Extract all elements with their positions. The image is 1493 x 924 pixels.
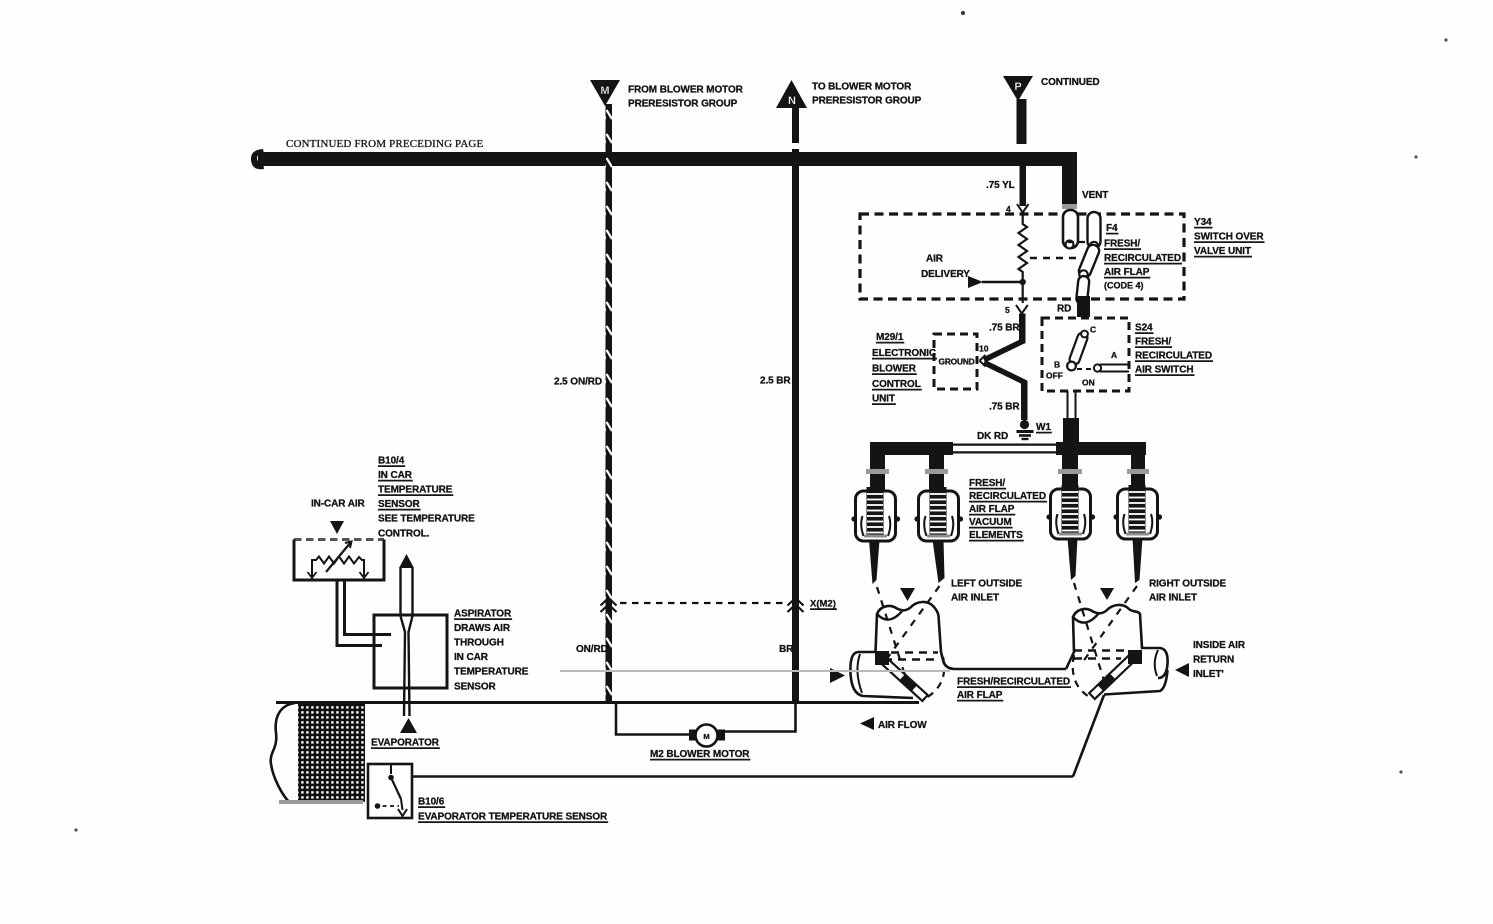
svg-text:RECIRCULATED: RECIRCULATED — [1104, 253, 1181, 264]
svg-text:THROUGH: THROUGH — [454, 638, 504, 649]
svg-text:EVAPORATOR: EVAPORATOR — [371, 738, 440, 749]
box: ground terminal of M29/1 (dashed) — [934, 334, 977, 389]
svg-text:CONTROL: CONTROL — [872, 379, 921, 390]
label: evaporator — [371, 738, 440, 749]
dashed alignment lines inside Y34 — [1030, 242, 1086, 258]
svg-text:B: B — [1054, 360, 1060, 370]
connector X(M2): separation point on both blower wires — [601, 598, 836, 612]
svg-text:INLET': INLET' — [1193, 669, 1224, 680]
svg-text:AIR SWITCH: AIR SWITCH — [1135, 365, 1193, 376]
motor M2 blower motor — [616, 703, 796, 747]
flap: right fresh/recirculated air flap — [1089, 650, 1142, 699]
label: from blower motor preresistor group — [628, 85, 744, 110]
ground W1 — [1017, 420, 1052, 439]
label: wire gauge 2.5 BR — [760, 376, 791, 387]
svg-text:P: P — [1014, 81, 1021, 93]
svg-text:ELEMENTS: ELEMENTS — [969, 530, 1023, 541]
svg-text:N: N — [788, 95, 796, 107]
connector M (from blower motor preresistor group) — [590, 80, 620, 106]
flap: left fresh/recirculated air flap — [875, 651, 928, 701]
label: ON/RD and BR near blower — [576, 644, 608, 655]
svg-text:FRESH/RECIRCULATED: FRESH/RECIRCULATED — [957, 677, 1070, 688]
svg-text:RETURN: RETURN — [1193, 655, 1234, 666]
label: fresh/recirculated air flap vacuum elements — [969, 478, 1046, 541]
vacuum valve: middle tilted capsule — [1077, 243, 1101, 279]
svg-text:CONTROL.: CONTROL. — [378, 529, 430, 540]
svg-text:M: M — [600, 85, 609, 97]
vacuum valve: lower capsule to RD port — [1076, 275, 1090, 304]
wire: vacuum manifold bus — [866, 442, 1149, 491]
linkage: dashed rods from elements 3-4 to right flap — [1074, 583, 1137, 687]
svg-text:2.5 ON/RD: 2.5 ON/RD — [554, 377, 602, 388]
svg-text:10: 10 — [979, 344, 989, 354]
svg-text:OFF: OFF — [1046, 371, 1063, 381]
svg-text:AIR: AIR — [926, 254, 944, 265]
svg-text:AIR INLET: AIR INLET — [951, 593, 999, 604]
arrow: left outside air inlet flow — [900, 588, 915, 601]
svg-text:IN-CAR AIR: IN-CAR AIR — [311, 499, 366, 510]
svg-text:BR: BR — [779, 644, 794, 655]
linkage: dashed rods from elements 1-2 to left flap — [877, 586, 940, 688]
wire: sensor leads to aspirator — [337, 581, 391, 646]
evaporator core (cross-hatched) — [279, 704, 365, 804]
label: S24 fresh/recirculated air switch — [1135, 323, 1212, 376]
svg-text:2.5 BR: 2.5 BR — [760, 376, 791, 387]
svg-text:B10/4: B10/4 — [378, 456, 405, 467]
label + wiper arrow: air delivery — [921, 254, 1020, 289]
arrow: right outside air inlet flow — [1100, 588, 1114, 600]
svg-text:SENSOR: SENSOR — [454, 682, 497, 693]
svg-text:.75 BR: .75 BR — [989, 402, 1020, 413]
svg-text:FRESH/: FRESH/ — [969, 478, 1005, 489]
svg-text:INSIDE AIR: INSIDE AIR — [1193, 640, 1246, 651]
label: right outside air inlet — [1149, 579, 1226, 604]
svg-text:A: A — [1111, 350, 1117, 360]
svg-text:VACUUM: VACUUM — [969, 517, 1012, 528]
svg-text:FRESH/: FRESH/ — [1104, 239, 1140, 250]
sensor B10/6 box — [368, 764, 412, 818]
svg-text:SENSOR: SENSOR — [378, 499, 421, 510]
aspirator box — [374, 615, 447, 688]
label: continued from preceding page — [286, 138, 484, 150]
wire: main thick feed bus from preceding page — [251, 149, 1077, 209]
pin 4 of Y34 — [1006, 204, 1029, 214]
svg-text:AIR FLAP: AIR FLAP — [957, 690, 1003, 701]
label: fresh/recirculated air flap — [957, 677, 1070, 702]
svg-text:FROM BLOWER MOTOR: FROM BLOWER MOTOR — [628, 85, 744, 96]
svg-text:BLOWER: BLOWER — [872, 364, 917, 375]
svg-text:PRERESISTOR GROUP: PRERESISTOR GROUP — [812, 96, 922, 107]
box: S24 fresh/recirculated air switch (dashed) — [1042, 318, 1129, 391]
svg-text:VENT: VENT — [1082, 190, 1108, 201]
svg-text:B10/6: B10/6 — [418, 797, 445, 808]
vacuum element 3 (right inner) — [1046, 485, 1095, 580]
svg-text:TEMPERATURE: TEMPERATURE — [454, 667, 529, 678]
svg-text:RIGHT OUTSIDE: RIGHT OUTSIDE — [1149, 579, 1226, 590]
wire: 2.5 BR wire from connector N down to blower motor — [792, 106, 799, 703]
svg-text:EVAPORATOR TEMPERATURE SENSOR: EVAPORATOR TEMPERATURE SENSOR — [418, 812, 608, 823]
svg-text:RECIRCULATED: RECIRCULATED — [969, 491, 1046, 502]
label: DK RD hose — [977, 431, 1008, 442]
wire: 2.5 ON/RD striped wire from connector M down to blower circuit — [606, 104, 613, 703]
label: continued — [1041, 77, 1100, 88]
sensor B10/4 box — [294, 540, 384, 581]
scan artifact: faint grey line — [560, 670, 950, 672]
svg-text:IN CAR: IN CAR — [378, 470, 413, 481]
label: inside air return inlet — [1193, 640, 1246, 680]
label: M29/1 electronic blower control unit — [872, 332, 936, 405]
arrow: in-car air into sensor — [330, 521, 344, 534]
svg-text:Y34: Y34 — [1194, 217, 1212, 228]
wire: fork from pin 10 up to pin 5 wire — [984, 341, 1023, 360]
svg-text:ELECTRONIC: ELECTRONIC — [872, 348, 936, 359]
connector N (to blower motor preresistor group) — [776, 80, 807, 108]
duct: left outside air inlet duct — [850, 602, 1066, 698]
svg-text:IN CAR: IN CAR — [454, 652, 489, 663]
svg-text:DELIVERY: DELIVERY — [921, 269, 970, 280]
svg-text:AIR FLAP: AIR FLAP — [1104, 267, 1150, 278]
wire: fork from pin 10 down to ground W1 (.75 BR) — [984, 363, 1028, 421]
arrow: into left duct — [830, 668, 845, 683]
svg-text:F4: F4 — [1106, 223, 1118, 234]
vacuum valve: upper arm capsule — [1088, 212, 1101, 250]
svg-text:RD: RD — [1057, 304, 1071, 315]
wire: vacuum hose from S24 pivot down to manifold — [1063, 391, 1079, 444]
label: VENT port — [1082, 190, 1108, 201]
svg-text:FRESH/: FRESH/ — [1135, 337, 1171, 348]
housing: torn-edge break at left — [271, 703, 295, 803]
connector P (continued) — [1003, 76, 1033, 101]
arrow: inside air return inlet — [1175, 663, 1189, 677]
aspirator venturi channel with arrows — [399, 554, 417, 733]
svg-text:AIR INLET: AIR INLET — [1149, 593, 1197, 604]
duct: right inside air return duct — [1066, 605, 1168, 698]
svg-text:C: C — [1090, 325, 1096, 335]
label: in-car air — [311, 499, 366, 510]
label: M2 blower motor — [650, 749, 750, 760]
svg-text:LEFT OUTSIDE: LEFT OUTSIDE — [951, 579, 1022, 590]
svg-text:5: 5 — [1005, 305, 1010, 315]
wire: B10/6 to inside air return duct — [412, 695, 1104, 777]
pin 5 of Y34 — [1005, 305, 1028, 315]
svg-text:W1: W1 — [1036, 422, 1051, 433]
label: wire gauge 2.5 ON/RD — [554, 377, 602, 388]
svg-text:(CODE 4): (CODE 4) — [1104, 281, 1144, 291]
svg-text:RECIRCULATED: RECIRCULATED — [1135, 351, 1212, 362]
svg-text:TO BLOWER MOTOR: TO BLOWER MOTOR — [812, 82, 912, 93]
label: aspirator draws air through in car temperature sensor — [454, 609, 529, 693]
vacuum element 2 (left inner) — [914, 487, 963, 583]
svg-text:UNIT: UNIT — [872, 394, 895, 405]
svg-text:ON: ON — [1082, 378, 1095, 388]
svg-text:ON/RD: ON/RD — [576, 644, 608, 655]
svg-text:CONTINUED: CONTINUED — [1041, 77, 1100, 88]
label: to blower motor preresistor group — [812, 82, 922, 107]
vacuum valve: vent tube capsule — [1063, 210, 1078, 249]
svg-text:4: 4 — [1006, 204, 1011, 214]
svg-text:M2 BLOWER MOTOR: M2 BLOWER MOTOR — [650, 749, 750, 760]
svg-text:TEMPERATURE: TEMPERATURE — [378, 485, 453, 496]
svg-text:AIR FLOW: AIR FLOW — [878, 720, 927, 731]
svg-text:CONTINUED FROM PRECEDING PAGE: CONTINUED FROM PRECEDING PAGE — [286, 138, 484, 150]
svg-text:DK RD: DK RD — [977, 431, 1008, 442]
label underlines — [371, 228, 1265, 823]
label: F4 fresh/recirculated air flap (code 4) — [1104, 223, 1181, 291]
label: left outside air inlet — [951, 579, 1022, 604]
svg-text:SWITCH OVER: SWITCH OVER — [1194, 232, 1264, 243]
svg-text:.75 BR: .75 BR — [989, 323, 1020, 334]
port: RD vacuum port at bottom of Y34 — [1057, 296, 1090, 317]
svg-text:SEE TEMPERATURE: SEE TEMPERATURE — [378, 514, 475, 525]
svg-text:M: M — [703, 732, 709, 741]
wire: feed from connector P to bus — [1017, 99, 1027, 144]
vacuum element 1 (left outer) — [851, 487, 900, 584]
arrow + label: air flow — [860, 717, 927, 731]
svg-text:AIR FLAP: AIR FLAP — [969, 504, 1015, 515]
switch S24 internals: contact C, pivot B, contact A, lever — [1046, 325, 1129, 388]
svg-text:PRERESISTOR GROUP: PRERESISTOR GROUP — [628, 99, 738, 110]
box: Y34 switch over valve unit (dashed) — [860, 214, 1184, 299]
svg-text:GROUND: GROUND — [939, 357, 975, 367]
pin 10 of M29/1 — [979, 344, 989, 367]
wire: .75 YL from bus to Y34 pin 4 — [986, 166, 1026, 206]
svg-text:DRAWS AIR: DRAWS AIR — [454, 623, 511, 634]
wire: .75 BR from pin 5 down to fork — [989, 314, 1026, 344]
svg-text:X(M2): X(M2) — [810, 599, 836, 610]
vacuum element 4 (right outer) — [1113, 485, 1162, 583]
svg-text:S24: S24 — [1135, 323, 1153, 334]
svg-text:ASPIRATOR: ASPIRATOR — [454, 609, 512, 620]
svg-text:M29/1: M29/1 — [876, 332, 904, 343]
svg-text:VALVE UNIT: VALVE UNIT — [1194, 246, 1251, 257]
svg-text:.75 YL: .75 YL — [986, 180, 1015, 191]
potentiometer: air delivery feedback inside Y34 — [1019, 213, 1028, 304]
label: Y34 switch over valve unit — [1194, 217, 1264, 257]
housing: top line of blower housing — [276, 701, 919, 704]
label: B10/4 in car temperature sensor — [378, 456, 475, 540]
label: B10/6 evaporator temperature sensor — [418, 797, 608, 823]
